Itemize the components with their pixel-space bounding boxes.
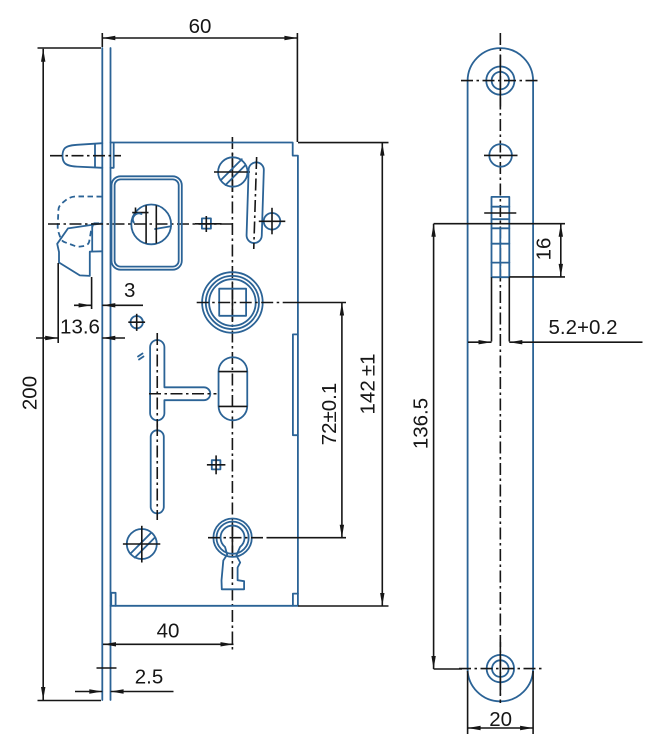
svg-text:13.6: 13.6 [60,316,100,339]
follower rings [202,272,263,333]
centerline vertical [499,33,501,703]
svg-text:40: 40 [157,620,180,643]
deadbolt centerline [48,223,232,225]
screw hole bottom (hatched) [127,529,157,559]
latch bolt tail [111,144,114,168]
lock case outline [111,143,298,606]
stop pin square [202,218,211,228]
dim 72±0.1 [341,303,343,538]
pin circle with cross [264,213,281,230]
faceplate outline [468,48,533,701]
svg-text:3: 3 [124,279,135,302]
hex hole [489,144,512,167]
bottom screw hole [487,655,514,682]
dim 60 [102,37,297,39]
small hole left (3/13.6 datum) [131,316,143,328]
dim 40 [103,643,234,645]
spring follower chord [155,226,171,229]
faceplate edge view strip [101,48,103,700]
svg-text:72±0.1: 72±0.1 [318,383,341,446]
latch housing inner [115,179,179,266]
deadbolt solid (retracted) [57,223,102,276]
svg-text:60: 60 [189,15,212,38]
dim 16 [434,223,565,225]
small square pin with cross [212,460,221,469]
dim 142±1 [381,143,383,606]
deadbolt head face line [91,224,93,252]
keyhole rings [213,519,251,557]
cylinder oval hole [219,357,248,420]
guide slot capsule (top) [246,157,264,249]
follower centerline [197,302,285,304]
latch bolt bevel line [94,144,96,167]
dim 3 [91,277,93,309]
deadbolt dashed (thrown position) [58,196,102,246]
bottom-left tab [111,593,115,606]
svg-text:136.5: 136.5 [410,398,433,449]
bottom-right tab [293,594,298,606]
dim 136.5 [433,224,435,669]
svg-text:142 ±1: 142 ±1 [356,354,379,415]
svg-text:20: 20 [489,708,512,731]
tiny mark [138,354,144,360]
latch bolt [63,143,103,168]
dim 200 [42,49,44,700]
deadbolt channel lines [491,277,493,341]
follower square hole [219,289,246,316]
latch housing outer [112,176,182,269]
latch centerline [50,155,121,157]
keyhole cutout [221,526,245,590]
latch slot [492,197,510,277]
dim 13.6 [57,263,59,343]
T slot [150,340,210,420]
spring wire lines [145,205,147,243]
screw hole top (hatched) [218,157,247,186]
right edge slot [293,334,298,435]
slot tick [484,212,516,214]
spring anchor detail [132,212,148,214]
svg-text:200: 200 [19,376,42,410]
faceplate break tick [97,667,117,669]
lower slot capsule [151,430,164,513]
keyhole centerline [208,537,268,539]
dim 2.5 [75,691,102,693]
centerline main vertical (lock body) [231,137,233,652]
svg-text:2.5: 2.5 [135,666,164,689]
spring follower circle [131,205,171,245]
dim 20 [467,671,469,734]
top screw hole [486,67,514,95]
svg-text:5.2+0.2: 5.2+0.2 [549,316,618,339]
svg-text:16: 16 [533,238,556,261]
dim 5.2+0.2 [468,341,492,343]
